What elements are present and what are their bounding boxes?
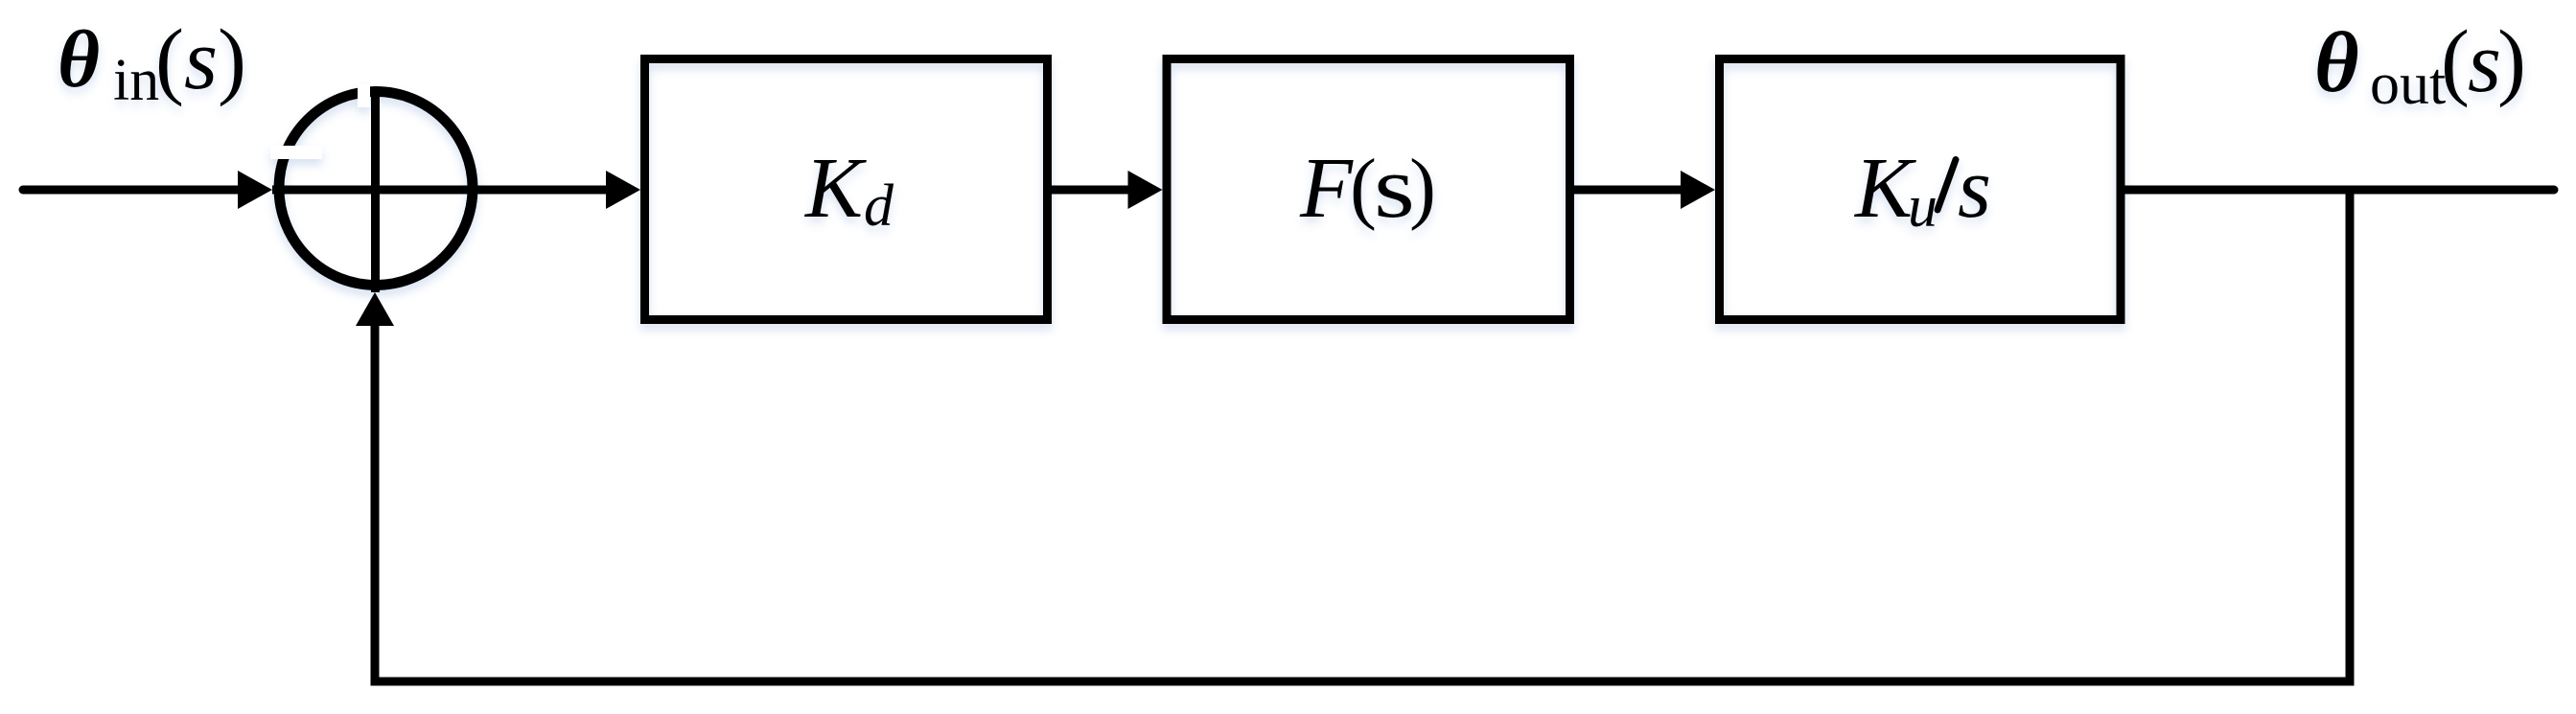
svg-text:s: s (1958, 141, 1991, 236)
summing junction arc gap left (270, 146, 322, 159)
block Ku/s (1720, 59, 2122, 320)
svg-text:d: d (864, 173, 894, 239)
block Kd (645, 59, 1048, 320)
svg-text:s: s (2468, 15, 2501, 110)
summing junction arc gap top (358, 84, 370, 107)
svg-text:(: ( (2441, 13, 2470, 108)
arrowhead: input into summing junction (238, 171, 272, 209)
label Ku/s (1853, 141, 1991, 240)
svg-text:): ) (2497, 13, 2526, 108)
arrowhead: into block Kd (606, 171, 640, 209)
label F(s) (1299, 138, 1436, 236)
arrowhead: feedback into summing junction bottom (356, 292, 394, 326)
svg-text:out: out (2370, 52, 2446, 117)
wire: feedback loop (down, across bottom, up) (375, 190, 2350, 681)
wire: F(s) to Ku/s (1574, 186, 1682, 195)
svg-text:(: ( (1350, 143, 1377, 232)
block F(s) (1167, 59, 1570, 320)
node theta_out(s) output label (2314, 13, 2526, 117)
svg-text:s: s (184, 12, 218, 107)
wire: input signal line (23, 186, 239, 195)
svg-text:K: K (803, 141, 867, 236)
svg-text:u: u (1908, 174, 1938, 240)
svg-text:(: ( (155, 12, 184, 107)
svg-text:F: F (1299, 141, 1354, 236)
wire: output signal line (2125, 186, 2555, 195)
svg-text:in: in (113, 48, 159, 113)
arrowhead: into block Ku/s (1681, 171, 1715, 209)
svg-text:): ) (1409, 143, 1436, 232)
wire: vertical line through summing junction (371, 87, 380, 292)
svg-text:): ) (218, 12, 246, 107)
wire: Kd to F(s) (1052, 186, 1128, 195)
arrowhead: into block F(s) (1128, 171, 1163, 209)
svg-text:θ: θ (58, 14, 100, 104)
wire: horizontal line through summing junction (272, 186, 607, 195)
summing junction circle (279, 92, 473, 286)
node theta_in(s) input label (58, 12, 246, 113)
label Kd (803, 141, 894, 239)
svg-text:θ: θ (2314, 15, 2359, 110)
